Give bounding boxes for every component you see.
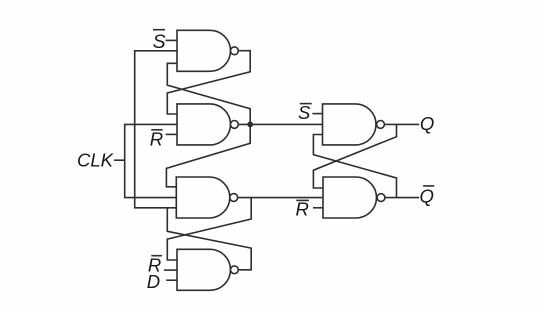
- wire R-bar stub to G4: [164, 269, 177, 271]
- wire net A: G1 output cross down to G2 top input: [167, 51, 250, 114]
- svg-text:D: D: [147, 271, 160, 292]
- wire net B: G2 output node up-cross to G1 bottom input: [167, 63, 250, 124]
- svg-text:CLK: CLK: [77, 150, 115, 171]
- label R-bar at G2: [150, 128, 163, 149]
- svg-text:R: R: [150, 128, 163, 149]
- nand-gate G4: [177, 249, 238, 290]
- wire S-bar stub to G5: [312, 113, 322, 115]
- wire net F: G5 bottom input cross down to Q-bar line: [313, 135, 396, 198]
- svg-text:S: S: [298, 102, 311, 123]
- nand-gate G2: [177, 104, 238, 145]
- wire Q output line: [384, 123, 419, 125]
- label R-bar at G6: [296, 199, 309, 220]
- label S-bar at G5: [298, 102, 312, 123]
- wire net C: G2 output down-cross to G3 top input: [166, 124, 250, 186]
- label S-bar at G1: [153, 30, 166, 53]
- svg-text:Q: Q: [420, 185, 434, 206]
- junction dot at G2 output node: [247, 122, 253, 128]
- wire net E: Q line cross down to G6 top input: [313, 124, 396, 188]
- nand-gate G1: [177, 30, 238, 71]
- wire D stub to G4: [166, 279, 177, 281]
- label Q-bar: [420, 185, 435, 206]
- wire node R: G3 output to G6 middle input: [238, 197, 323, 199]
- nand-gate G3: [176, 177, 237, 218]
- wire R-bar stub to G2: [166, 133, 177, 135]
- wire CLK label stub: [114, 159, 125, 161]
- svg-text:S: S: [153, 31, 166, 53]
- wire S-bar input stub to G1: [166, 39, 178, 41]
- wire R-bar stub to G6: [313, 207, 323, 209]
- wire Q-bar output line: [385, 197, 419, 199]
- wire node S: G2 output to G5 middle input: [238, 123, 322, 125]
- wire feedback net: G4 output node up to G1 middle input and to G3 bottom input: [135, 51, 177, 208]
- nand-gate G6: [323, 177, 385, 218]
- svg-text:R: R: [296, 199, 309, 220]
- wire CLK net: vertical bus feeding G2 and G3 middle inputs: [125, 124, 177, 197]
- svg-text:Q: Q: [420, 113, 434, 134]
- label R-bar at G4: [148, 255, 162, 276]
- nand-gate G5: [323, 104, 385, 145]
- wire net E2: G3 output tap down-cross to G4 top input: [167, 198, 251, 260]
- wire net D: G4 output up-cross to feedback tee: [167, 208, 251, 270]
